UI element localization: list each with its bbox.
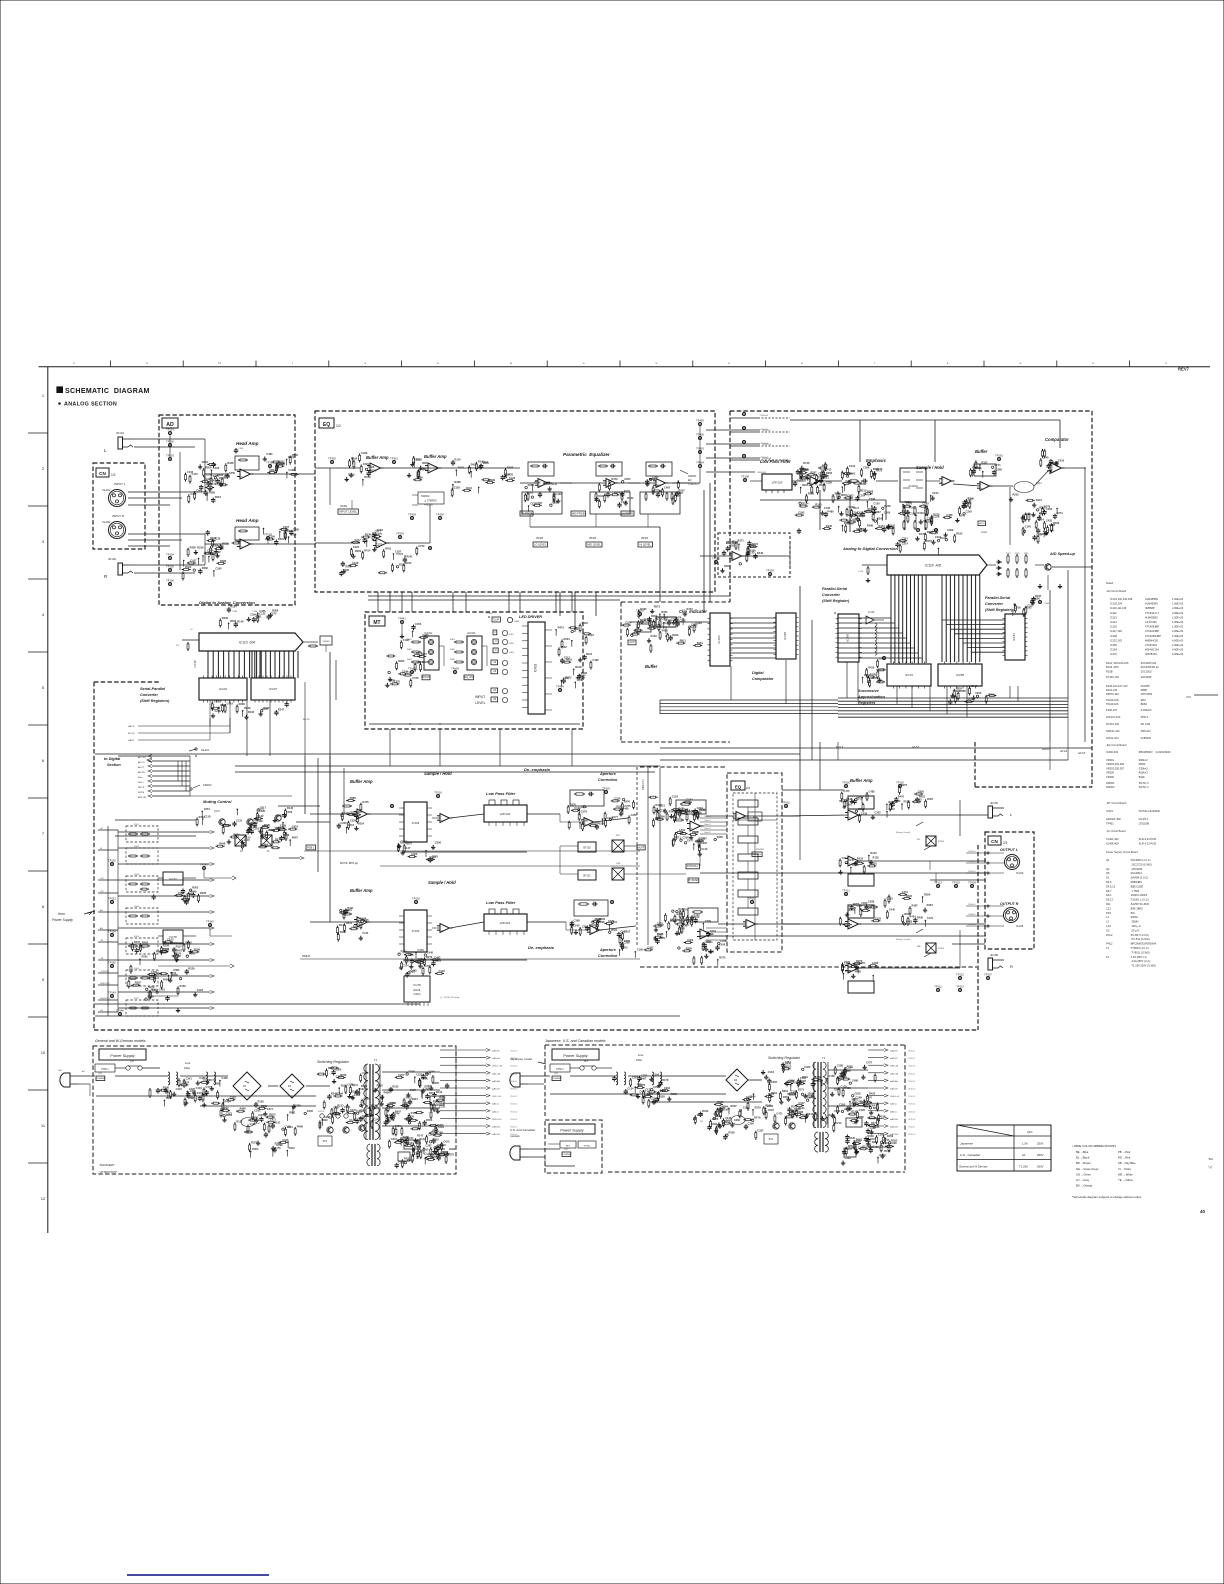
svg-text:MR: MR — [917, 946, 921, 948]
svg-text:IC110): IC110) — [414, 994, 421, 996]
svg-text:C432: C432 — [1046, 519, 1053, 523]
input wiring L — [128, 439, 205, 573]
svg-text:C116: C116 — [348, 823, 355, 827]
choke L4 — [404, 1096, 444, 1149]
svg-text:F105: F105 — [134, 936, 140, 938]
svg-text:toAD-DG: toAD-DG — [492, 1133, 501, 1136]
svg-text:2/2: 2/2 — [1003, 841, 1008, 845]
svg-text:C487: C487 — [664, 485, 671, 489]
svg-text:BYPASS L: BYPASS L — [687, 865, 699, 868]
svg-text:PHL2: PHL2 — [1106, 942, 1113, 946]
buffer amp IC302 (R) — [350, 528, 389, 560]
svg-text:1.00E+03: 1.00E+03 — [1172, 620, 1184, 624]
svg-text::C50k×2: :C50k×2 — [1138, 766, 1148, 770]
svg-text:C343: C343 — [203, 1078, 210, 1082]
svg-text:Q1: Q1 — [1106, 858, 1110, 862]
svg-text:Comparator: Comparator — [752, 677, 774, 681]
muting rail — [115, 820, 330, 836]
bus taps to IC181 — [942, 620, 1005, 652]
svg-text:R381: R381 — [871, 861, 878, 865]
svg-text:R142: R142 — [339, 923, 346, 927]
svg-text:R303: R303 — [192, 886, 199, 890]
svg-text::MTA: :MTA — [1140, 698, 1146, 702]
svg-text:C182: C182 — [454, 486, 461, 490]
PS1 bulk caps — [220, 1095, 281, 1133]
regulator IC177 — [140, 863, 236, 905]
svg-text:R448: R448 — [575, 665, 582, 669]
svg-text:CN7: CN7 — [554, 1073, 559, 1075]
svg-text:C177: C177 — [376, 543, 383, 547]
svg-text:LPF102: LPF102 — [500, 812, 511, 816]
svg-text:IC166: IC166 — [783, 632, 787, 640]
buffer sub box (top) — [718, 533, 790, 577]
de-emphasis opamp IC111 — [527, 814, 628, 827]
buffer amp IC301b — [407, 456, 442, 481]
svg-text:-: - — [849, 921, 850, 924]
svg-text:R285: R285 — [686, 946, 693, 950]
emphasis network — [820, 464, 898, 499]
svg-text:R449: R449 — [757, 551, 764, 555]
svg-text::B10k: :B10k — [1138, 775, 1145, 779]
svg-text:VR303: VR303 — [641, 538, 649, 540]
LPF post amp IC114 — [798, 467, 825, 495]
label Sample/Hold (DAC R) — [428, 880, 456, 885]
svg-text:C324: C324 — [581, 805, 588, 809]
svg-text:-: - — [441, 815, 442, 818]
svg-text:AD CK: AD CK — [138, 761, 145, 764]
svg-text:TP108: TP108 — [741, 475, 749, 479]
svg-text:Buffer Amp: Buffer Amp — [424, 454, 447, 459]
svg-text:C302: C302 — [563, 676, 570, 680]
svg-text:toAD-AG: toAD-AG — [890, 1080, 898, 1083]
R buffer wires — [310, 921, 404, 923]
svg-text:T1: T1 — [1106, 946, 1110, 950]
svg-text:C278: C278 — [906, 502, 913, 506]
svg-text:Buffer: Buffer — [975, 449, 988, 454]
svg-text:C379: C379 — [608, 919, 615, 923]
svg-text:R188: R188 — [879, 1115, 886, 1119]
bus taps to IC168 — [838, 618, 922, 658]
svg-text:DA IN: DA IN — [128, 739, 134, 742]
label Low Pass Filter (ADC) — [760, 459, 791, 464]
svg-text:F101: F101 — [134, 824, 140, 826]
svg-text:F104: F104 — [134, 906, 140, 908]
DAC data bus — [208, 651, 298, 678]
AC plug 3 — [510, 1146, 528, 1160]
svg-text:C307: C307 — [536, 501, 543, 505]
svg-text:DG(DGTL): DG(DGTL) — [100, 983, 110, 985]
svg-text:PC-511 (G,WG): PC-511 (G,WG) — [1130, 937, 1150, 941]
svg-text:IC101,102,106-108: IC101,102,106-108 — [1110, 597, 1133, 601]
svg-text:Order-3: Order-3 — [704, 823, 711, 826]
svg-text:R324: R324 — [358, 821, 365, 825]
svg-text:LED DRIVER: LED DRIVER — [519, 615, 542, 619]
label Successive Approximation Registers3 — [858, 701, 875, 705]
svg-text:R401: R401 — [633, 631, 640, 635]
svg-text:CN101-8: CN101-8 — [510, 1119, 517, 1121]
low pass filter LPF102 — [484, 800, 527, 826]
transformer T2 — [813, 1056, 828, 1152]
ruler tick marks and column letters — [73, 361, 1167, 367]
PS2 output lines — [868, 1049, 915, 1137]
switch SW302 stereo/mono — [412, 492, 444, 507]
PS1 line filter parts — [159, 1076, 218, 1107]
svg-text:R307: R307 — [263, 706, 270, 710]
svg-text:L1: L1 — [1106, 915, 1109, 919]
svg-text:R476: R476 — [362, 800, 369, 804]
svg-text:R145: R145 — [848, 858, 855, 862]
svg-text:EQ: EQ — [735, 784, 742, 789]
svg-text:-: - — [441, 925, 442, 928]
svg-text:C488: C488 — [946, 513, 953, 517]
IC113 vert label — [193, 660, 197, 667]
svg-text:C308: C308 — [435, 840, 442, 844]
svg-text:R374: R374 — [1057, 511, 1064, 515]
label Buffer Amp (DAC L) — [350, 779, 373, 784]
svg-text:R376: R376 — [1044, 504, 1051, 508]
comparator buffer IC148 — [866, 611, 884, 624]
phone jack JK101 — [104, 431, 134, 453]
bus signal names — [836, 746, 1086, 755]
svg-text:TP119: TP119 — [602, 787, 610, 791]
svg-text:-: - — [429, 465, 430, 468]
svg-text:R336: R336 — [365, 533, 372, 537]
svg-text:40: 40 — [1200, 1209, 1206, 1214]
svg-text:CN101-2: CN101-2 — [510, 1096, 517, 1098]
svg-text:▲ STEREO: ▲ STEREO — [424, 500, 437, 503]
secondary parts 2 — [830, 1064, 886, 1127]
clip shift register IC164 — [708, 613, 733, 666]
svg-text:JK102: JK102 — [108, 557, 116, 561]
trunk wire EQ out to clip — [704, 483, 710, 612]
svg-text:IC164: IC164 — [1110, 648, 1117, 652]
svg-text:C324: C324 — [846, 803, 853, 807]
label Sample/Hold (ADC) — [916, 465, 944, 470]
svg-text:C169: C169 — [509, 476, 516, 480]
svg-text:C318: C318 — [933, 515, 940, 519]
svg-text:C399: C399 — [489, 478, 496, 482]
svg-text::EB5-C20E: :EB5-C20E — [1130, 884, 1143, 888]
svg-text:C492: C492 — [679, 828, 686, 832]
RSB R label — [300, 954, 640, 959]
svg-text:JK106: JK106 — [990, 953, 998, 957]
IC401 right parts — [555, 621, 599, 692]
svg-text:IC115A: IC115A — [908, 484, 917, 488]
svg-text:IC401: IC401 — [534, 664, 538, 673]
svg-text:Order-4: Order-4 — [704, 827, 711, 830]
svg-text:toAD+5: toAD+5 — [890, 1103, 898, 1106]
svg-text:C389: C389 — [356, 1110, 363, 1114]
label switching regulator 1 — [317, 1060, 350, 1064]
svg-text:C244: C244 — [466, 486, 473, 490]
svg-text:AD EN: AD EN — [138, 771, 145, 774]
extra cluster head amp L — [263, 452, 299, 478]
svg-text:MID PRGB: MID PRGB — [572, 511, 585, 515]
svg-text:BT102: BT102 — [583, 847, 591, 850]
svg-text::XLR-3-31 PCB: :XLR-3-31 PCB — [1138, 837, 1156, 841]
svg-text:R482: R482 — [340, 930, 347, 934]
svg-text:toAD-PC: toAD-PC — [890, 1057, 898, 1060]
svg-text:Order-1: Order-1 — [704, 815, 711, 818]
svg-text:Order-2: Order-2 — [704, 819, 711, 822]
svg-text:IC113 D/A: IC113 D/A — [239, 640, 256, 644]
muting control R — [896, 929, 945, 957]
svg-text:C394: C394 — [250, 612, 257, 616]
svg-text:Rsta: Rsta — [138, 776, 143, 779]
svg-text:C110: C110 — [691, 625, 698, 629]
muting transistors Q103 Q104 — [214, 809, 281, 825]
svg-text:AD ST: AD ST — [911, 746, 920, 749]
svg-text:C330: C330 — [361, 451, 368, 455]
svg-text:Approximation: Approximation — [857, 695, 885, 699]
svg-text:TP142: TP142 — [206, 920, 214, 924]
svg-text:TP304: TP304 — [408, 513, 416, 517]
svg-text:Buffer: Buffer — [645, 664, 658, 669]
svg-text:C287: C287 — [771, 1080, 778, 1084]
digital section signal fan — [138, 755, 190, 800]
svg-text:Filter: Filter — [184, 1066, 191, 1070]
buffer amp IC301a — [345, 451, 384, 486]
svg-text:R403: R403 — [407, 659, 413, 661]
SAR support parts — [862, 657, 886, 688]
svg-text:C474: C474 — [344, 811, 351, 815]
svg-text:TP101: TP101 — [166, 428, 174, 432]
svg-text:C229: C229 — [966, 509, 973, 513]
svg-text:R207: R207 — [810, 470, 817, 474]
label Head Amp (R) — [236, 518, 259, 523]
sample hold opamp IC115B — [939, 477, 955, 486]
head amp IC101b — [202, 527, 259, 563]
output L pin wires — [966, 851, 1004, 874]
svg-text:TP115: TP115 — [782, 801, 790, 805]
BYPASS boxed — [686, 864, 700, 883]
svg-text:D4,5,13: D4,5,13 — [1106, 884, 1116, 888]
svg-text:-: - — [981, 483, 982, 486]
svg-text:L: L — [1010, 812, 1013, 817]
SW301 switch — [680, 470, 699, 486]
svg-text:r: r — [292, 361, 293, 365]
svg-text:ANALOG SECTION: ANALOG SECTION — [64, 402, 117, 408]
svg-text:C216: C216 — [768, 1108, 775, 1112]
svg-text:R154: R154 — [687, 607, 694, 611]
svg-text:Japanese model: Japanese model — [510, 1057, 532, 1061]
svg-text:R: R — [104, 574, 108, 579]
svg-text:R255: R255 — [853, 902, 860, 906]
svg-text:-18: -18 — [100, 940, 104, 942]
svg-text:toAD+1B: toAD+1B — [890, 1065, 899, 1068]
svg-text:XL409: XL409 — [1016, 872, 1024, 875]
svg-text:C187: C187 — [395, 549, 402, 553]
svg-text:RY301-304: RY301-304 — [1106, 722, 1120, 726]
svg-text:1.00E+03: 1.00E+03 — [1172, 634, 1184, 638]
svg-text:CN101-5: CN101-5 — [908, 1104, 915, 1106]
aperture correction R parts — [675, 908, 718, 937]
svg-text:250V: 250V — [1037, 1142, 1044, 1146]
label Serial-Parallel Converter2 — [140, 693, 158, 697]
shift register IC102 — [199, 676, 247, 703]
power supply 3 box — [545, 1120, 602, 1173]
svg-text:IC114: IC114 — [1110, 620, 1117, 624]
svg-text:D6,7: D6,7 — [1106, 889, 1112, 893]
svg-text:5: 5 — [42, 685, 45, 690]
IC181 top parts — [1012, 594, 1050, 617]
svg-text:MUTE, BPS (a): MUTE, BPS (a) — [340, 861, 358, 865]
power supply 1 box — [93, 1046, 456, 1174]
svg-text:R182: R182 — [458, 466, 465, 470]
svg-text:R162: R162 — [258, 1100, 265, 1104]
svg-text:Q114: Q114 — [1036, 482, 1042, 485]
label Buffer (ADC) — [975, 449, 988, 454]
svg-text:C297: C297 — [324, 1115, 331, 1119]
svg-text:R125: R125 — [857, 857, 864, 861]
svg-text:BPS ON: BPS ON — [138, 797, 147, 799]
svg-text:TP302: TP302 — [328, 457, 336, 461]
svg-text:C216: C216 — [849, 464, 856, 468]
label US Canadian models — [510, 1128, 536, 1138]
svg-text:ALM4558S: ALM4558S — [1145, 602, 1158, 606]
svg-text:EQ: EQ — [688, 479, 692, 482]
svg-text:R467: R467 — [292, 836, 299, 840]
svg-text:TP155: TP155 — [108, 961, 116, 965]
adc long feed wire — [760, 490, 925, 532]
svg-text:EQ: EQ — [323, 422, 330, 428]
svg-text:e: e — [801, 361, 803, 365]
svg-text:R117: R117 — [176, 945, 183, 949]
svg-text:R446: R446 — [582, 621, 589, 625]
svg-text:+B: +B — [100, 828, 103, 830]
CN 2/2 section box — [985, 832, 1034, 949]
clip TP — [628, 609, 644, 645]
svg-text:D2: D2 — [288, 1085, 292, 1088]
svg-text:IC103: IC103 — [412, 929, 420, 933]
S/H opamp IC110 — [432, 922, 484, 933]
EQ bottom connector comb — [378, 592, 572, 612]
sar to shiftreg bus — [660, 660, 838, 714]
svg-text::T10201 (J,U,C): :T10201 (J,U,C) — [1130, 898, 1149, 902]
svg-text:-10: -10 — [493, 661, 497, 664]
svg-text:R287: R287 — [875, 510, 882, 514]
svg-text:n: n — [728, 361, 730, 365]
svg-text:CN101-6: CN101-6 — [908, 1111, 915, 1113]
svg-text:CN101-9: CN101-9 — [908, 1134, 915, 1136]
svg-text:CN404-1: CN404-1 — [968, 904, 976, 906]
svg-text:BTW1: BTW1 — [938, 841, 945, 843]
svg-text:o: o — [1020, 361, 1022, 365]
svg-text:R132: R132 — [257, 814, 264, 818]
svg-text:1.7504: 1.7504 — [1130, 889, 1140, 893]
svg-text:XL408,409: XL408,409 — [1106, 841, 1119, 845]
svg-text:IC168: IC168 — [846, 634, 850, 642]
svg-text:R373: R373 — [654, 604, 661, 608]
svg-text:Order-5: Order-5 — [704, 831, 711, 834]
svg-text:R106, R09: R106, R09 — [1106, 665, 1119, 669]
svg-text:POWER: POWER — [96, 1078, 105, 1080]
adc mid parts fill — [795, 491, 891, 534]
svg-text:LED401-408: LED401-408 — [1106, 817, 1121, 821]
X caps — [149, 1088, 168, 1098]
svg-text:Head Amp: Head Amp — [236, 441, 259, 446]
label Digital to Analog Conversion — [199, 600, 255, 605]
svg-text:INPUT LEVEL: INPUT LEVEL — [339, 510, 357, 514]
svg-text:Switching Regulator: Switching Regulator — [768, 1056, 801, 1060]
svg-text:TP301: TP301 — [390, 457, 398, 461]
svg-text:C122: C122 — [215, 550, 222, 554]
svg-text:-: - — [811, 478, 812, 481]
label Buffer (direct) — [645, 664, 658, 669]
label Parallel-Serial Converter R3 — [985, 608, 1013, 612]
svg-text:IC181: IC181 — [1012, 633, 1016, 641]
svg-text:C208: C208 — [996, 467, 1003, 471]
svg-text:C222: C222 — [353, 545, 360, 549]
svg-text:C376: C376 — [350, 810, 357, 814]
PS2 bulk caps — [700, 1093, 761, 1130]
svg-text:IC172: IC172 — [905, 673, 913, 677]
svg-text:SCHEMATIC DIAGRAM: SCHEMATIC DIAGRAM — [65, 388, 150, 395]
svg-text::W50k: :W50k — [1138, 762, 1146, 766]
svg-text:1: 1 — [42, 393, 45, 398]
VR level boxed label HI — [621, 511, 653, 547]
svg-text:POWER: POWER — [562, 1154, 571, 1156]
svg-text:CLIP: CLIP — [629, 641, 635, 644]
left frame line — [47, 367, 49, 1233]
svg-text:C327: C327 — [279, 462, 286, 466]
L buffer wires — [310, 805, 404, 815]
svg-text:R454: R454 — [879, 524, 886, 528]
svg-text:C213: C213 — [961, 504, 968, 508]
LED column 2 — [450, 633, 487, 670]
svg-text:(Muting Control): (Muting Control) — [896, 831, 911, 834]
label Serial-Parallel Converter — [140, 687, 166, 691]
svg-text:-MT Circuit Board: -MT Circuit Board — [1106, 801, 1127, 805]
svg-text:TP126: TP126 — [412, 897, 420, 901]
svg-text:AC: AC — [82, 1070, 85, 1073]
svg-text:R405: R405 — [450, 649, 456, 651]
connector XL402 INPUT R — [102, 514, 126, 539]
output R pin wires — [966, 904, 1004, 927]
svg-text:R169: R169 — [435, 958, 442, 962]
svg-text:Muting Control: Muting Control — [203, 799, 232, 804]
svg-text:toAD-AG: toAD-AG — [492, 1080, 500, 1083]
svg-text:CN101-1: CN101-1 — [908, 1073, 915, 1075]
svg-text:Successive: Successive — [858, 689, 879, 693]
bridge rectifier D2 — [280, 1074, 304, 1098]
svg-text:R450: R450 — [348, 473, 355, 477]
svg-text:L: L — [104, 448, 107, 453]
svg-text:R257: R257 — [406, 842, 413, 846]
switching transistors 1 — [318, 1125, 365, 1146]
AD section box — [159, 415, 295, 605]
svg-text:CN101-5: CN101-5 — [510, 1104, 517, 1106]
svg-text:R57: R57 — [616, 835, 621, 837]
VR level boxed label MID — [571, 511, 602, 547]
svg-text:6: 6 — [42, 758, 45, 763]
EQ input node wires — [315, 468, 360, 543]
svg-text:C255: C255 — [229, 471, 236, 475]
extra cluster eq low — [339, 544, 425, 576]
svg-text:R449: R449 — [577, 678, 584, 682]
svg-text:XL401: XL401 — [102, 488, 111, 492]
rail out arrows — [146, 964, 235, 999]
left row numbers 1-12 — [41, 393, 46, 1201]
svg-text:R395: R395 — [640, 607, 647, 611]
svg-text:R451: R451 — [385, 547, 392, 551]
svg-text:R261: R261 — [422, 461, 429, 465]
svg-text:IC116 A/D: IC116 A/D — [925, 563, 942, 567]
eq2 area verticals — [648, 768, 700, 945]
EQ bottom bus wires — [368, 596, 730, 600]
svg-text:TP102: TP102 — [712, 557, 720, 561]
svg-text:(Shift Register): (Shift Register) — [985, 608, 1013, 612]
